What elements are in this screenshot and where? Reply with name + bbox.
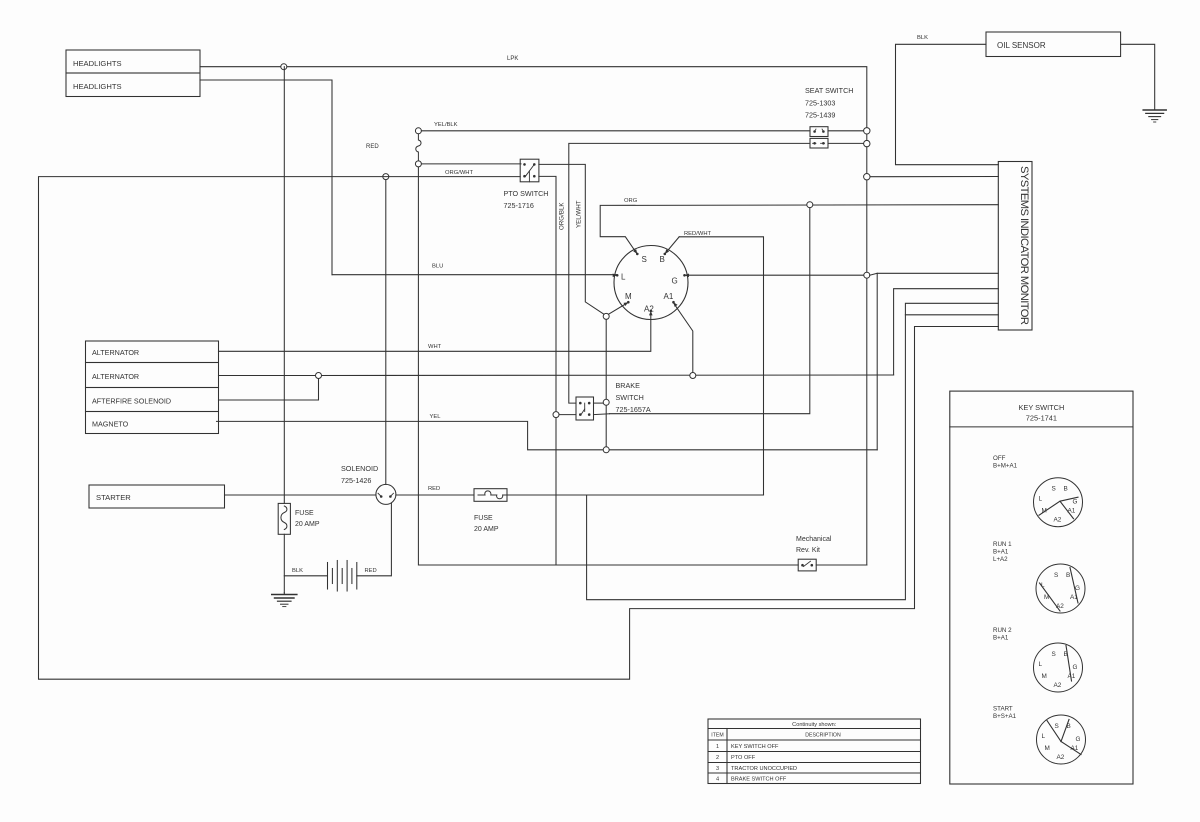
svg-text:ORG/BLK: ORG/BLK bbox=[559, 202, 566, 230]
svg-text:BLU: BLU bbox=[432, 264, 443, 270]
svg-text:725-1303: 725-1303 bbox=[805, 99, 835, 108]
svg-text:DESCRIPTION: DESCRIPTION bbox=[805, 733, 841, 739]
svg-text:S: S bbox=[642, 255, 647, 264]
svg-text:A2: A2 bbox=[644, 305, 654, 314]
connector brake switch right bbox=[603, 399, 609, 405]
svg-text:M: M bbox=[625, 292, 632, 301]
ground symbol (battery ground) bbox=[272, 593, 297, 607]
svg-text:B+A1: B+A1 bbox=[993, 635, 1009, 642]
svg-text:SOLENOID: SOLENOID bbox=[341, 464, 378, 473]
svg-text:Continuity shown:: Continuity shown: bbox=[792, 722, 837, 728]
svg-text:BLK: BLK bbox=[917, 35, 928, 41]
svg-text:G: G bbox=[672, 277, 678, 286]
svg-text:1: 1 bbox=[716, 744, 719, 750]
wire RED/WHT key switch B to starter circuit bbox=[679, 231, 763, 495]
svg-text:RUN 1: RUN 1 bbox=[993, 541, 1012, 548]
wire BLK oil sensor to monitor bbox=[896, 35, 999, 165]
svg-text:S: S bbox=[1054, 572, 1058, 579]
wire BLK battery negative bbox=[284, 568, 327, 576]
junction headlight feed bbox=[281, 64, 287, 70]
svg-text:RED: RED bbox=[428, 486, 440, 492]
svg-text:AFTERFIRE SOLENOID: AFTERFIRE SOLENOID bbox=[92, 397, 171, 406]
svg-text:A2: A2 bbox=[1054, 517, 1062, 524]
connector YEL/BLK lower bbox=[415, 161, 421, 167]
svg-text:G: G bbox=[1076, 736, 1081, 743]
pto switch box bbox=[504, 159, 549, 210]
wire starter sense to monitor pin 3 bbox=[587, 303, 999, 599]
svg-text:ORG/WHT: ORG/WHT bbox=[445, 170, 473, 176]
junction ORG/WHT loop bbox=[383, 174, 389, 180]
svg-text:G: G bbox=[1073, 664, 1078, 671]
key position RUN 1 label bbox=[993, 541, 1012, 563]
battery B1 bbox=[328, 561, 357, 592]
connector ORG to brake return bbox=[807, 202, 813, 208]
svg-text:LPK: LPK bbox=[507, 56, 518, 62]
connector junction afterfire/alternator bbox=[316, 373, 322, 379]
svg-text:BRAKE: BRAKE bbox=[616, 381, 641, 390]
key position OFF diagram bbox=[1034, 478, 1083, 527]
key switch panel box bbox=[950, 391, 1133, 784]
svg-text:FUSE: FUSE bbox=[295, 510, 314, 517]
wire oil sensor ground bbox=[1121, 44, 1155, 109]
connector seat lower bbox=[864, 140, 870, 146]
terminal label G bbox=[672, 274, 690, 286]
wire WHT alternator 1 to key switch A2 bbox=[219, 314, 651, 352]
wire ORG/WHT interlock loop bbox=[39, 170, 999, 679]
wire brake switch top right pin bbox=[594, 402, 604, 404]
wire RED battery positive to solenoid bbox=[357, 504, 392, 576]
wire M terminal stub bbox=[608, 303, 628, 315]
wire RED solenoid output via fuse F2 bbox=[396, 486, 764, 495]
seat switch connector upper bbox=[810, 127, 828, 137]
svg-text:START: START bbox=[993, 706, 1013, 713]
svg-text:KEY SWITCH: KEY SWITCH bbox=[1018, 403, 1064, 412]
key position RUN 2 diagram bbox=[1034, 643, 1083, 692]
svg-text:B+M+A1: B+M+A1 bbox=[993, 463, 1018, 470]
svg-text:RED/WHT: RED/WHT bbox=[684, 231, 712, 237]
svg-text:RUN 2: RUN 2 bbox=[993, 627, 1012, 634]
alternator box 1 bbox=[86, 341, 219, 363]
svg-text:KEY SWITCH OFF: KEY SWITCH OFF bbox=[731, 744, 779, 750]
svg-text:WHT: WHT bbox=[428, 344, 442, 350]
svg-text:725-1657A: 725-1657A bbox=[616, 405, 651, 414]
svg-text:PTO SWITCH: PTO SWITCH bbox=[504, 189, 549, 198]
svg-text:A1: A1 bbox=[1068, 508, 1076, 515]
wire headlight ground leg (vertical x=284.6) bbox=[283, 67, 285, 593]
svg-text:HEADLIGHTS: HEADLIGHTS bbox=[73, 82, 122, 91]
terminal label S bbox=[633, 249, 647, 264]
wire M junction down to brake switch bbox=[605, 320, 607, 447]
svg-text:FUSE: FUSE bbox=[474, 515, 493, 522]
wire interlock bus (vertical x=866.8) bbox=[866, 134, 868, 565]
wire brake switch return up to ORG bbox=[610, 208, 810, 414]
svg-text:OIL SENSOR: OIL SENSOR bbox=[997, 41, 1046, 50]
wire seat interlock to brake switch top bbox=[569, 143, 810, 403]
svg-text:A2: A2 bbox=[1057, 754, 1065, 761]
svg-text:725-1426: 725-1426 bbox=[341, 476, 371, 485]
connector G interlock bbox=[864, 272, 870, 278]
svg-text:S: S bbox=[1052, 486, 1056, 493]
key position RUN 2 label bbox=[993, 627, 1012, 642]
key position START label bbox=[993, 706, 1017, 721]
terminal label L bbox=[613, 273, 626, 282]
svg-text:YEL: YEL bbox=[430, 414, 442, 420]
connector YEL/BLK upper bbox=[415, 122, 457, 134]
svg-text:STARTER: STARTER bbox=[96, 493, 131, 502]
svg-text:L: L bbox=[1042, 733, 1046, 740]
connector A1 junction bbox=[690, 373, 696, 379]
seat switch connector lower bbox=[810, 138, 828, 148]
svg-text:20 AMP: 20 AMP bbox=[474, 526, 499, 533]
fuse F2 20 AMP bbox=[474, 489, 510, 533]
svg-text:SYSTEMS INDICATOR MONITOR: SYSTEMS INDICATOR MONITOR bbox=[1018, 166, 1030, 325]
svg-text:L: L bbox=[1039, 661, 1043, 668]
svg-text:Rev. Kit: Rev. Kit bbox=[796, 547, 820, 554]
svg-text:ALTERNATOR: ALTERNATOR bbox=[92, 372, 139, 381]
svg-text:725-1741: 725-1741 bbox=[1026, 414, 1057, 423]
svg-text:A2: A2 bbox=[1054, 682, 1062, 689]
svg-text:ORG: ORG bbox=[624, 198, 638, 204]
terminal label M bbox=[624, 292, 633, 306]
wire brake switch lower pins bbox=[559, 413, 610, 416]
magneto box bbox=[86, 412, 219, 434]
svg-text:L: L bbox=[1039, 496, 1043, 503]
wire solenoid coil up to ORG/WHT junction (vertical x=385.8) bbox=[385, 177, 387, 485]
afterfire solenoid box bbox=[86, 388, 219, 412]
starter box bbox=[89, 485, 225, 508]
key position OFF label bbox=[993, 455, 1018, 470]
wire ORG key switch S feed bbox=[600, 198, 998, 254]
solenoid 725-1426 bbox=[341, 464, 396, 504]
svg-text:HEADLIGHTS: HEADLIGHTS bbox=[73, 59, 122, 68]
wire interlock up to monitor pin 1 bbox=[877, 273, 998, 450]
svg-text:B+A1: B+A1 bbox=[993, 549, 1009, 556]
wire seat switch pigtails to interlock bus bbox=[828, 131, 864, 144]
svg-text:G: G bbox=[1073, 499, 1078, 506]
svg-text:ITEM: ITEM bbox=[711, 733, 723, 739]
wire YEL/BLK to seat switch bbox=[421, 130, 810, 132]
continuity table bbox=[708, 719, 921, 784]
svg-text:S: S bbox=[1052, 651, 1056, 658]
svg-text:PTO OFF: PTO OFF bbox=[731, 755, 756, 761]
svg-text:2: 2 bbox=[716, 755, 719, 761]
terminal label A1 bbox=[664, 292, 678, 307]
svg-text:M: M bbox=[1045, 745, 1050, 752]
wire A1 stub bbox=[673, 303, 693, 373]
wire YEL magneto to interlock net bbox=[217, 414, 878, 450]
svg-text:725-1439: 725-1439 bbox=[805, 111, 835, 120]
terminal label A2 bbox=[644, 305, 654, 316]
wire seat input to monitor bbox=[870, 176, 998, 178]
svg-text:A1: A1 bbox=[664, 292, 674, 301]
svg-text:YEL/WHT: YEL/WHT bbox=[576, 200, 583, 228]
svg-text:SWITCH: SWITCH bbox=[616, 393, 644, 402]
alternator box 2 bbox=[86, 363, 219, 388]
svg-text:YEL/BLK: YEL/BLK bbox=[434, 122, 458, 128]
svg-text:B: B bbox=[1064, 486, 1068, 493]
svg-text:S: S bbox=[1055, 723, 1059, 730]
mechanical rev kit switch bbox=[796, 536, 832, 571]
connector seat upper bbox=[864, 128, 870, 134]
svg-text:L: L bbox=[621, 273, 626, 282]
coiled link between connectors bbox=[416, 134, 421, 160]
wire monitor pin 4 branch bbox=[905, 314, 998, 316]
wire B terminal stub bbox=[665, 237, 679, 254]
wire afterfire solenoid stub bbox=[219, 379, 319, 401]
wire reverse kit to interlock bus bbox=[816, 564, 867, 566]
svg-text:3: 3 bbox=[716, 766, 719, 772]
wire ORG/BLK pto to brake switch bbox=[539, 176, 566, 564]
svg-text:20 AMP: 20 AMP bbox=[295, 521, 320, 528]
fuse F1 20 AMP bbox=[278, 503, 320, 534]
svg-text:BLK: BLK bbox=[292, 568, 303, 574]
key position RUN 1 diagram bbox=[1036, 564, 1085, 613]
connector brake switch lower-left bbox=[553, 412, 559, 418]
wire G into monitor bbox=[870, 273, 878, 275]
svg-text:TRACTOR UNOCCUPIED: TRACTOR UNOCCUPIED bbox=[731, 766, 797, 772]
svg-text:SEAT SWITCH: SEAT SWITCH bbox=[805, 86, 853, 95]
svg-text:OFF: OFF bbox=[993, 455, 1006, 462]
wire LPK headlights to seat switch bbox=[200, 56, 867, 129]
headlights box 1 bbox=[66, 50, 200, 73]
wire reverse kit feed bbox=[418, 167, 798, 565]
wire starter to solenoid bbox=[225, 494, 377, 496]
svg-text:B: B bbox=[1066, 572, 1070, 579]
svg-text:RED: RED bbox=[366, 144, 379, 150]
terminal label B bbox=[660, 249, 670, 264]
svg-text:Mechanical: Mechanical bbox=[796, 536, 832, 543]
seat switch label bbox=[805, 86, 853, 120]
key position START diagram bbox=[1037, 715, 1086, 764]
svg-text:4: 4 bbox=[716, 776, 719, 782]
svg-text:M: M bbox=[1042, 673, 1047, 680]
ground symbol (oil sensor) bbox=[1143, 110, 1166, 122]
key switch circle bbox=[614, 246, 688, 320]
connector M junction bbox=[603, 313, 609, 319]
wire kill net alternator 2 to A1/M and monitor bbox=[219, 289, 999, 376]
svg-text:ALTERNATOR: ALTERNATOR bbox=[92, 348, 139, 357]
oil sensor box bbox=[986, 32, 1121, 57]
svg-text:B: B bbox=[660, 255, 665, 264]
svg-text:B+S+A1: B+S+A1 bbox=[993, 713, 1017, 720]
wire G terminal to interlock bbox=[685, 274, 867, 276]
connector junction brake net on YEL wire bbox=[603, 447, 609, 453]
wire PTO feed bbox=[421, 163, 521, 165]
wire BLU headlight feed to L bbox=[332, 264, 617, 275]
svg-text:725-1716: 725-1716 bbox=[504, 201, 534, 210]
wire YEL/WHT pto to M junction bbox=[539, 164, 604, 314]
headlights box 2 bbox=[66, 73, 200, 97]
svg-text:MAGNETO: MAGNETO bbox=[92, 420, 129, 429]
brake switch box bbox=[576, 381, 651, 420]
svg-text:L+A2: L+A2 bbox=[993, 556, 1008, 563]
systems indicator monitor box bbox=[998, 162, 1032, 331]
svg-text:BRAKE SWITCH OFF: BRAKE SWITCH OFF bbox=[731, 776, 787, 782]
connector monitor seat input bbox=[864, 174, 870, 180]
wire RED headlights 2 down to BLU bbox=[200, 80, 379, 275]
svg-text:RED: RED bbox=[365, 568, 377, 574]
